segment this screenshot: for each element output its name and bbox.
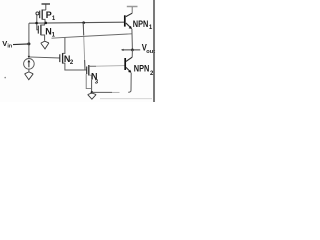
svg-text:NPN: NPN (134, 64, 150, 74)
svg-text:NPN: NPN (133, 19, 149, 29)
svg-text:in: in (7, 44, 12, 50)
